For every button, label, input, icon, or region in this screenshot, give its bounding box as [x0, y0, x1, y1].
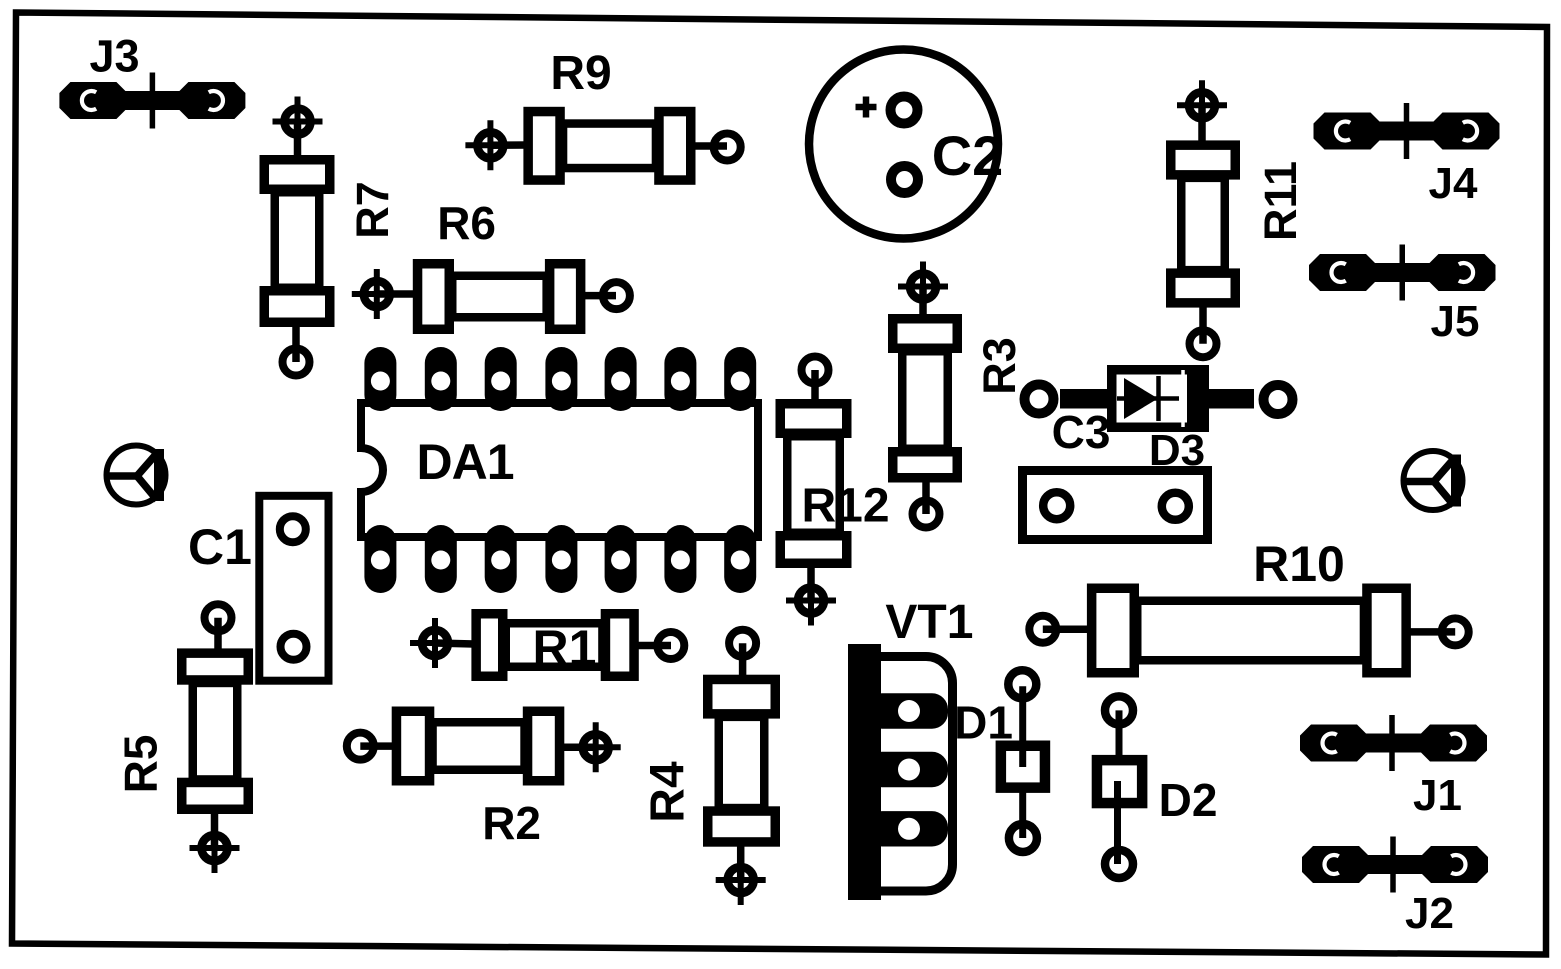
diode D2 — [1097, 696, 1217, 878]
svg-text:VT1: VT1 — [885, 596, 973, 649]
svg-text:R3: R3 — [974, 337, 1025, 395]
svg-text:J5: J5 — [1431, 297, 1480, 346]
capacitor C1 — [188, 496, 328, 681]
jumper J2 — [1302, 837, 1488, 939]
resistor R1 — [410, 614, 684, 677]
resistor R5 — [115, 604, 249, 873]
capacitor C3 — [1023, 406, 1208, 540]
IC DA1 — [361, 347, 758, 593]
capacitor C2 — [809, 50, 1003, 239]
svg-text:C1: C1 — [188, 519, 252, 575]
svg-text:J4: J4 — [1429, 159, 1478, 208]
resistor R12 — [780, 357, 889, 626]
jumper J3 — [59, 31, 245, 129]
mounting hole left — [105, 446, 166, 505]
diode D1 — [954, 670, 1045, 852]
svg-text:J1: J1 — [1413, 771, 1462, 820]
jumper J4 — [1314, 103, 1500, 208]
resistor R2 — [347, 711, 621, 849]
resistor R6 — [352, 197, 630, 329]
resistor R9 — [465, 47, 740, 180]
svg-text:R5: R5 — [115, 735, 167, 794]
resistor R11 — [1171, 80, 1306, 357]
svg-text:DA1: DA1 — [416, 434, 513, 490]
mounting hole right — [1402, 451, 1463, 510]
svg-text:J3: J3 — [89, 31, 139, 82]
svg-text:D1: D1 — [954, 697, 1013, 749]
diode D3 — [1025, 370, 1293, 475]
svg-text:C3: C3 — [1052, 406, 1111, 458]
jumper J5 — [1309, 245, 1496, 347]
svg-text:R12: R12 — [801, 480, 889, 533]
svg-text:R6: R6 — [437, 197, 496, 249]
svg-text:R1: R1 — [533, 620, 597, 676]
svg-text:R4: R4 — [641, 761, 694, 823]
svg-text:R7: R7 — [347, 181, 398, 239]
resistor R4 — [641, 630, 775, 905]
svg-text:R2: R2 — [482, 797, 541, 849]
svg-text:R9: R9 — [550, 47, 611, 100]
svg-text:C2: C2 — [932, 124, 1004, 187]
svg-text:R10: R10 — [1253, 536, 1345, 592]
resistor R3 — [893, 262, 1025, 528]
resistor R7 — [264, 97, 398, 376]
svg-text:D2: D2 — [1159, 774, 1218, 826]
transistor VT1 — [848, 596, 973, 900]
svg-text:J2: J2 — [1405, 889, 1454, 938]
resistor R10 — [1029, 536, 1468, 673]
jumper J1 — [1300, 715, 1487, 820]
svg-text:R11: R11 — [1255, 161, 1306, 241]
